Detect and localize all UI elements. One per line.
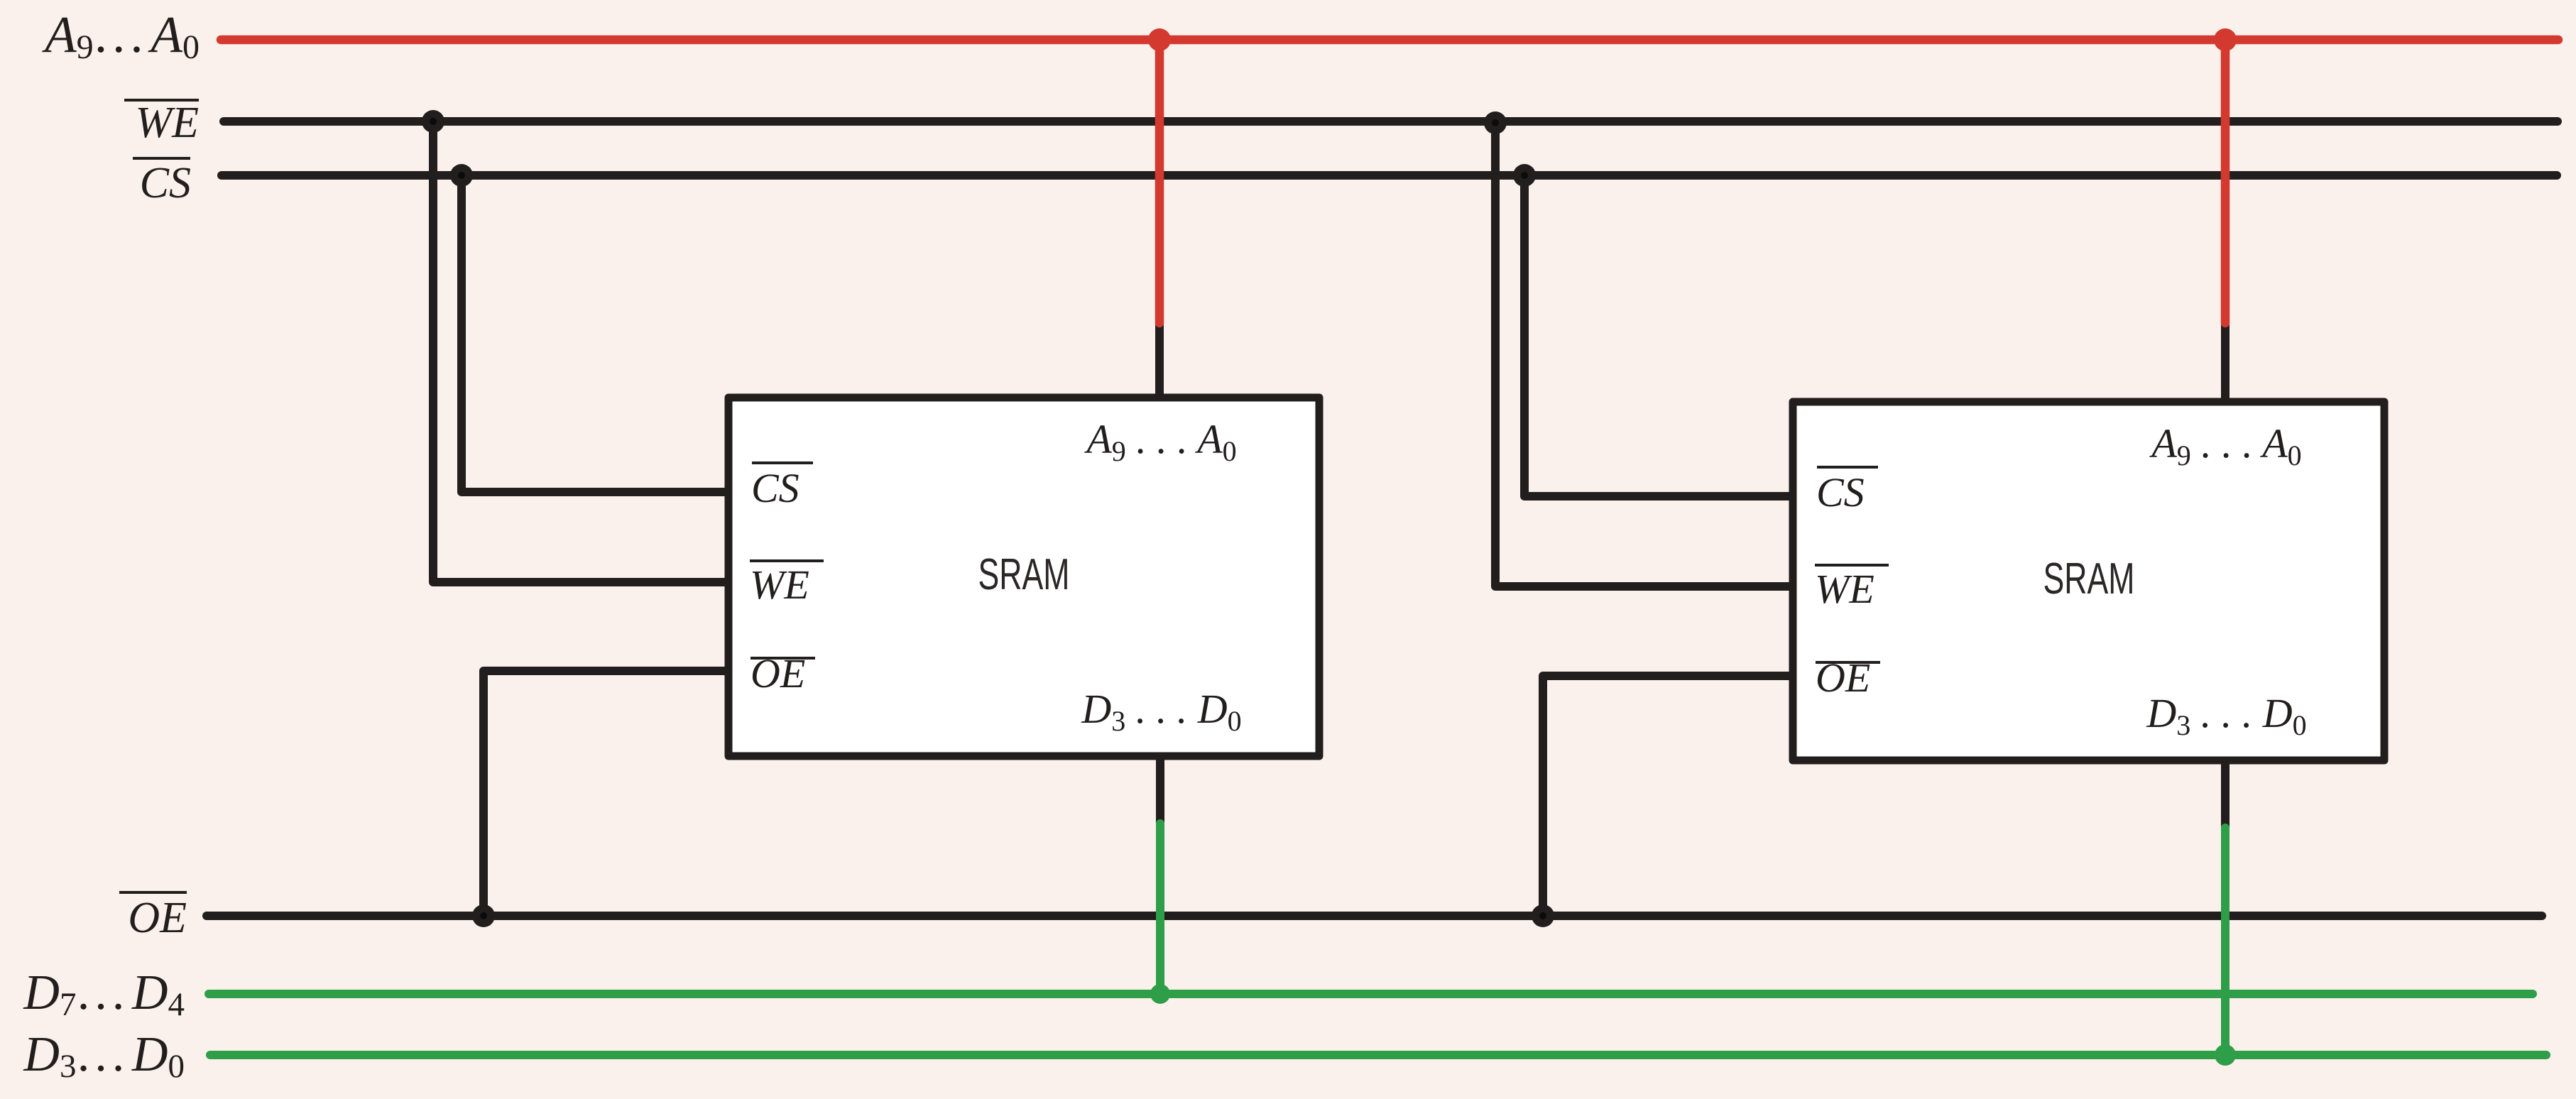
wire D3-D0 data bus: [210, 1051, 2546, 1059]
svg-text:D7...D4: D7...D4: [23, 966, 185, 1023]
wire A bus to SRAM1 address pin (red): [1155, 40, 1164, 323]
svg-text:A9 . . . A0: A9 . . . A0: [1084, 416, 1236, 467]
wire CS bus: [222, 171, 2557, 180]
wire SRAM1 address pin stub (black): [1155, 321, 1164, 399]
wire SRAM1 OE pin to OE bus: [484, 671, 731, 916]
svg-text:WE: WE: [750, 562, 809, 608]
junction A-bus / SRAM1 address: [1148, 28, 1171, 51]
junction WE bus / SRAM2: [1484, 111, 1507, 134]
junction OE bus / SRAM1: [472, 904, 495, 927]
svg-text:CS: CS: [1816, 469, 1865, 515]
svg-text:WE: WE: [135, 99, 199, 147]
svg-text:A9 . . . A0: A9 . . . A0: [2149, 420, 2301, 471]
wire WE bus to SRAM2 WE pin: [1495, 121, 1796, 586]
wire SRAM2 data pin to D3-D0 bus (green): [2221, 828, 2230, 1055]
svg-text:D3...D0: D3...D0: [23, 1027, 185, 1085]
wire A bus to SRAM2 address pin (red): [2221, 40, 2230, 323]
wire SRAM2 address pin stub (black): [2221, 321, 2230, 403]
overline of WE (SRAM1): [750, 559, 824, 562]
svg-text:WE: WE: [1815, 566, 1874, 612]
junction WE bus / SRAM1: [422, 110, 444, 133]
overline of CS (SRAM2): [1817, 466, 1878, 469]
overline of OE (left): [119, 891, 187, 894]
svg-text:D3 . . . D0: D3 . . . D0: [1081, 686, 1241, 737]
wire WE bus to SRAM1 WE pin: [433, 121, 731, 582]
junction A-bus / SRAM2 address: [2214, 28, 2237, 51]
wire CS bus to SRAM1 CS pin: [462, 175, 731, 492]
SRAM chip U1 body: [728, 398, 1319, 756]
junction D3-D0 bus / SRAM2 data: [2215, 1044, 2236, 1066]
junction D7-D4 bus / SRAM1 data: [1150, 984, 1170, 1004]
wire OE bus: [207, 912, 2542, 920]
wire A bus (red): [221, 35, 2558, 45]
overline of CS (SRAM1): [752, 461, 813, 464]
wire D7-D4 data bus: [209, 990, 2533, 998]
wire SRAM2 data pin stub (black): [2221, 759, 2230, 829]
wire SRAM1 data pin stub (black): [1156, 755, 1164, 825]
svg-text:CS: CS: [140, 159, 191, 207]
wire CS bus to SRAM2 CS pin: [1524, 175, 1796, 496]
overline of WE (SRAM2): [1815, 564, 1889, 567]
svg-text:D3 . . . D0: D3 . . . D0: [2146, 690, 2306, 741]
wire WE bus: [224, 117, 2558, 126]
junction CS bus / SRAM1: [450, 164, 473, 187]
svg-text:SRAM: SRAM: [2043, 554, 2135, 603]
svg-text:A9...A0: A9...A0: [42, 6, 200, 66]
wire SRAM1 data pin to D7-D4 bus (green): [1156, 824, 1164, 994]
svg-text:CS: CS: [751, 465, 799, 511]
SRAM chip U2 body: [1793, 402, 2384, 760]
overline of OE (SRAM1): [751, 657, 815, 660]
overline of WE (left): [124, 99, 199, 102]
junction CS bus / SRAM2: [1513, 164, 1536, 187]
svg-text:OE: OE: [128, 894, 187, 942]
overline of OE (SRAM2): [1816, 661, 1880, 664]
svg-text:SRAM: SRAM: [978, 550, 1070, 599]
wire SRAM2 OE pin to OE bus: [1543, 676, 1796, 916]
junction OE bus / SRAM2: [1532, 904, 1554, 927]
overline of CS (left): [133, 157, 190, 160]
